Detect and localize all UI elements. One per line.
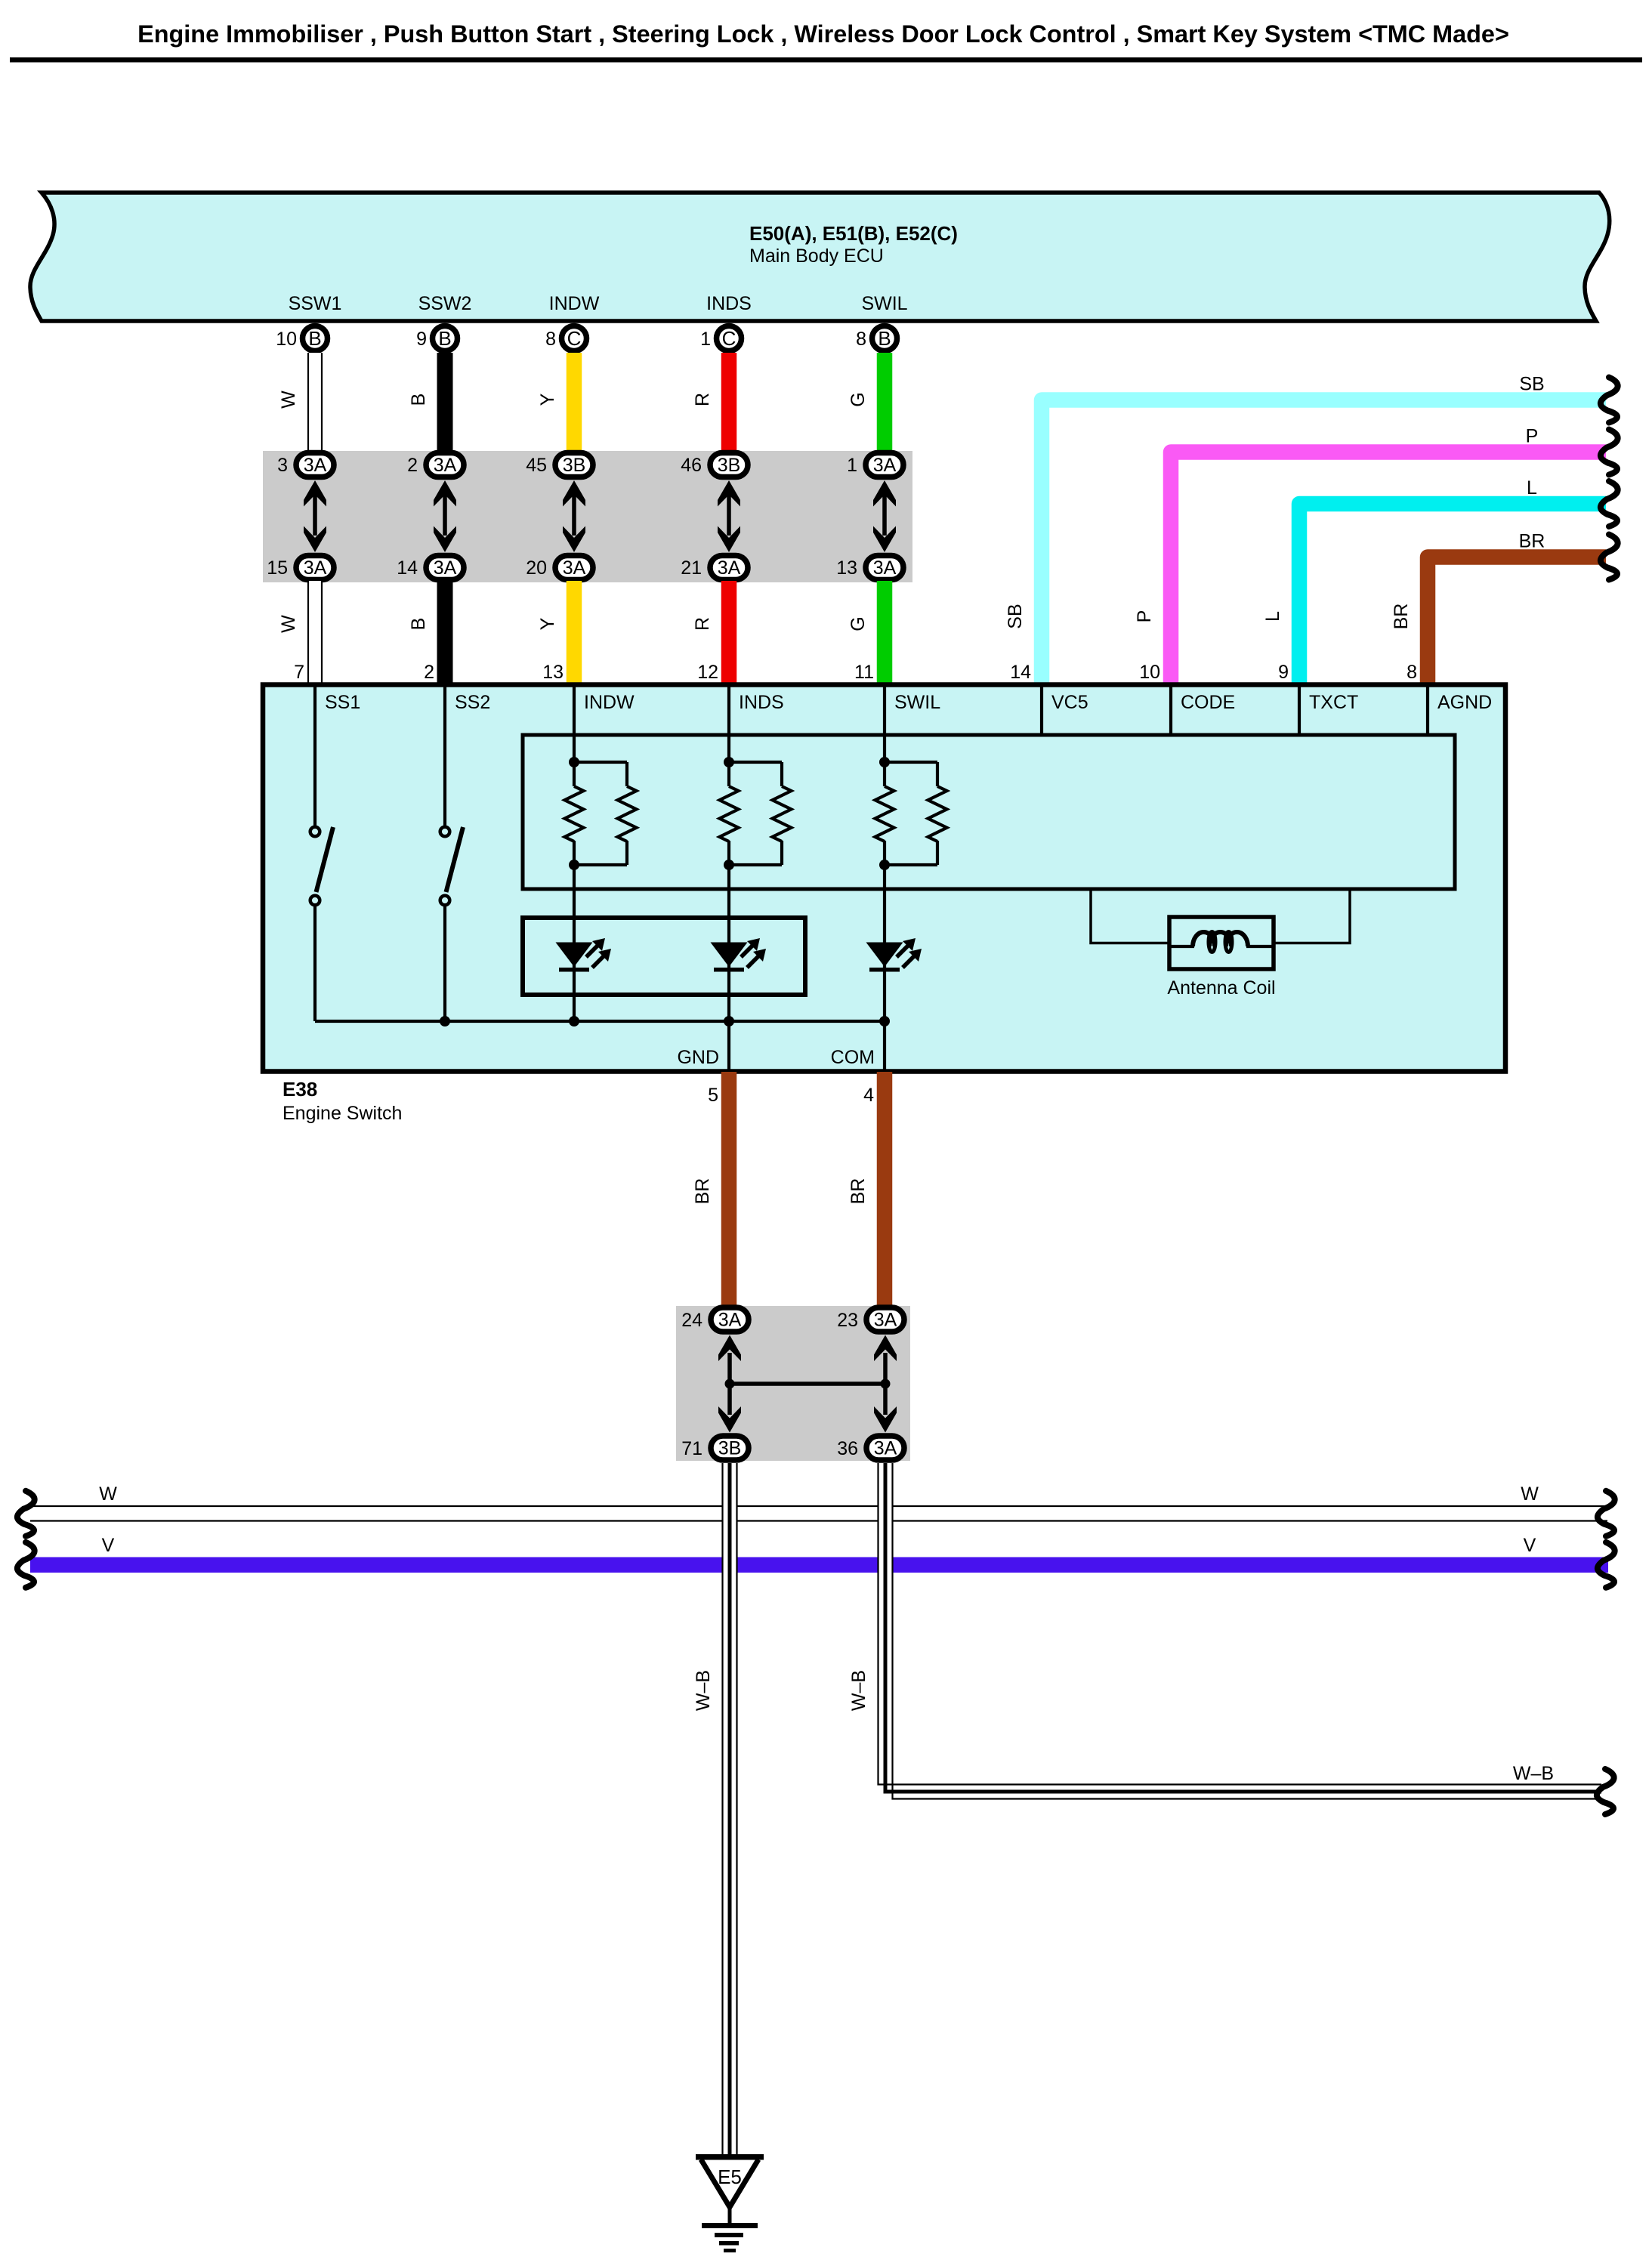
resistor pair SWIL <box>875 757 947 870</box>
svg-text:SSW2: SSW2 <box>418 293 472 314</box>
svg-text:BR: BR <box>1391 604 1412 630</box>
terminal divider at 1379 <box>1040 687 1043 735</box>
lower arrow pair right <box>874 1335 897 1433</box>
svg-text:R: R <box>692 393 713 406</box>
LED SWIL <box>866 938 922 972</box>
svg-text:21: 21 <box>681 557 702 579</box>
resistor pair INDS <box>720 757 792 870</box>
svg-text:24: 24 <box>681 1310 702 1331</box>
wire W horizontal <box>30 1506 1607 1521</box>
svg-text:14: 14 <box>397 557 418 579</box>
svg-text:Y: Y <box>537 393 558 406</box>
svg-text:15: 15 <box>267 557 288 579</box>
LED INDW <box>556 938 612 972</box>
antenna coil box <box>1169 917 1274 969</box>
svg-text:Engine Immobiliser , Push Butt: Engine Immobiliser , Push Button Start ,… <box>137 20 1509 48</box>
break V left <box>17 1542 35 1588</box>
ground E5 bar 3 <box>715 2233 743 2237</box>
svg-text:3A: 3A <box>563 557 586 579</box>
wire Y INDW lower <box>567 581 582 684</box>
svg-text:3A: 3A <box>873 455 897 476</box>
title rule <box>10 57 1642 63</box>
ground E5 top bar <box>696 2154 764 2160</box>
svg-text:2: 2 <box>407 455 418 476</box>
svg-text:3A: 3A <box>874 1310 897 1331</box>
svg-text:G: G <box>848 392 869 406</box>
svg-text:Engine Switch: Engine Switch <box>283 1103 402 1124</box>
svg-text:W: W <box>99 1483 117 1505</box>
break symbol BR <box>1601 535 1618 580</box>
junction oval pin 21 3A <box>710 556 748 580</box>
junction arrow pair col INDW <box>563 480 585 552</box>
junction arrow pair col SWIL <box>873 480 896 552</box>
break symbol L <box>1601 481 1618 526</box>
junction oval pin 36 3A <box>866 1436 904 1460</box>
wire P pin 10 <box>1171 452 1606 685</box>
connector pin 1 (C) INDS <box>717 326 742 351</box>
connector pin 9 (B) SSW2 <box>433 326 458 351</box>
svg-text:13: 13 <box>542 662 564 683</box>
lower junction connector box <box>676 1306 910 1461</box>
svg-text:Y: Y <box>537 617 558 630</box>
INDS column wire <box>727 687 730 764</box>
SWIL column wire <box>883 687 886 764</box>
svg-text:SB: SB <box>1005 604 1026 628</box>
svg-text:CODE: CODE <box>1181 692 1235 713</box>
svg-text:TXCT: TXCT <box>1309 692 1358 713</box>
svg-text:13: 13 <box>836 557 857 579</box>
wire R INDS upper <box>721 353 737 452</box>
bus junction dot 1171 <box>879 1016 890 1026</box>
svg-text:3A: 3A <box>873 557 897 579</box>
svg-text:1: 1 <box>847 455 857 476</box>
wire W SS1 lower <box>307 581 323 684</box>
junction oval pin 3 3A <box>296 453 334 477</box>
engine switch box E38 <box>263 685 1505 1072</box>
junction arrow pair col SSW1 <box>304 480 326 552</box>
junction oval pin 2 3A <box>426 453 464 477</box>
svg-text:11: 11 <box>854 662 874 683</box>
wire Y INDW upper <box>567 353 582 452</box>
internal ground bus <box>315 1020 885 1023</box>
svg-text:B: B <box>878 327 891 350</box>
antenna wiring left <box>1091 889 1169 943</box>
wire L pin 9 <box>1299 504 1606 684</box>
wire V horizontal <box>30 1557 1608 1573</box>
svg-text:SS1: SS1 <box>325 692 360 713</box>
junction arrow pair col SSW2 <box>434 480 456 552</box>
junction oval pin 71 3B <box>711 1436 749 1460</box>
svg-text:20: 20 <box>526 557 547 579</box>
svg-text:71: 71 <box>681 1438 702 1459</box>
svg-text:E38: E38 <box>283 1078 317 1101</box>
svg-text:3A: 3A <box>434 455 457 476</box>
svg-text:COM: COM <box>831 1047 875 1068</box>
break W-B right <box>1597 1769 1614 1814</box>
svg-text:3A: 3A <box>718 557 741 579</box>
junction oval pin 15 3A <box>296 556 334 580</box>
svg-text:8: 8 <box>856 329 866 350</box>
connector pin 8 (B) SWIL <box>872 326 897 351</box>
terminal divider at 1720 <box>1298 687 1301 735</box>
svg-text:14: 14 <box>1010 662 1031 683</box>
svg-text:3B: 3B <box>718 455 741 476</box>
ground E5 bar 5 <box>724 2249 736 2252</box>
connector pin 10 (B) SSW1 <box>303 326 328 351</box>
antenna wiring right <box>1274 889 1350 943</box>
svg-text:9: 9 <box>1278 662 1289 683</box>
svg-text:7: 7 <box>294 662 304 683</box>
junction oval pin 13 3A <box>866 556 903 580</box>
link dot right <box>881 1379 891 1389</box>
svg-text:E50(A), E51(B), E52(C): E50(A), E51(B), E52(C) <box>749 222 958 245</box>
bus junction dot 589 <box>440 1016 450 1026</box>
svg-text:W–B: W–B <box>1513 1763 1554 1784</box>
svg-text:8: 8 <box>1407 662 1417 683</box>
svg-text:Main Body ECU: Main Body ECU <box>749 245 884 267</box>
wire W-B left vertical <box>722 1463 738 2155</box>
bus junction dot 760 <box>569 1016 579 1026</box>
svg-text:SS2: SS2 <box>455 692 490 713</box>
svg-text:W: W <box>1521 1483 1539 1505</box>
Main Body ECU box E50/E51/E52 <box>30 193 1610 321</box>
svg-text:SWIL: SWIL <box>894 692 940 713</box>
lower junction link <box>730 1382 885 1386</box>
terminal divider at 1890 <box>1426 687 1429 735</box>
svg-text:INDW: INDW <box>549 293 600 314</box>
wire G SWIL lower <box>877 581 893 684</box>
junction oval pin 14 3A <box>426 556 464 580</box>
resistor pair INDW <box>565 757 637 870</box>
wire BR COM pin 4 <box>877 1072 893 1306</box>
wire W-B right with corner <box>878 1463 1602 1799</box>
junction oval pin 1 3A <box>866 453 903 477</box>
svg-text:R: R <box>692 617 713 631</box>
break symbol P <box>1601 430 1618 475</box>
SS1 switch <box>310 687 333 1021</box>
svg-text:W–B: W–B <box>693 1670 714 1711</box>
svg-text:SWIL: SWIL <box>861 293 907 314</box>
LED INDS <box>711 938 767 972</box>
connector pin 8 (C) INDW <box>562 326 587 351</box>
wire BR pin 8 <box>1428 557 1606 685</box>
ground E5 triangle <box>701 2159 758 2207</box>
svg-text:1: 1 <box>700 329 711 350</box>
break symbol SB <box>1601 378 1618 423</box>
svg-text:3A: 3A <box>434 557 457 579</box>
svg-text:P: P <box>1526 426 1539 447</box>
wire SB pin 14 <box>1042 400 1606 685</box>
svg-text:C: C <box>722 327 736 350</box>
svg-text:3A: 3A <box>718 1310 742 1331</box>
svg-text:45: 45 <box>526 455 547 476</box>
svg-text:B: B <box>408 618 429 631</box>
junction oval pin 45 3B <box>555 453 593 477</box>
svg-text:23: 23 <box>837 1310 858 1331</box>
svg-text:AGND: AGND <box>1437 692 1492 713</box>
wire B SS2 lower <box>437 581 453 684</box>
wire R INDS lower <box>721 581 737 684</box>
INDW column wire <box>573 687 576 764</box>
svg-text:SSW1: SSW1 <box>289 293 342 314</box>
svg-text:3: 3 <box>277 455 288 476</box>
svg-text:B: B <box>408 394 429 406</box>
junction oval pin 24 3A <box>711 1307 749 1332</box>
break W left <box>17 1491 35 1536</box>
svg-text:3A: 3A <box>874 1438 897 1459</box>
svg-text:10: 10 <box>1139 662 1160 683</box>
wire B SSW2 upper <box>437 353 453 452</box>
svg-text:W–B: W–B <box>848 1670 869 1711</box>
svg-text:Antenna Coil: Antenna Coil <box>1167 977 1275 999</box>
svg-text:2: 2 <box>424 662 434 683</box>
junction oval pin 23 3A <box>866 1307 904 1332</box>
wire BR GND pin 5 <box>721 1072 737 1306</box>
svg-text:9: 9 <box>416 329 427 350</box>
junction oval pin 20 3A <box>555 556 593 580</box>
svg-text:BR: BR <box>692 1178 713 1205</box>
svg-text:5: 5 <box>708 1085 718 1106</box>
svg-text:W: W <box>278 615 299 633</box>
svg-text:VC5: VC5 <box>1051 692 1088 713</box>
ground E5 bar 4 <box>719 2241 739 2246</box>
svg-text:3B: 3B <box>718 1438 742 1459</box>
ground E5 stem <box>728 2207 732 2225</box>
svg-text:B: B <box>308 327 321 350</box>
svg-text:G: G <box>848 616 869 631</box>
junction connector band 3A/3B <box>263 451 912 582</box>
svg-text:BR: BR <box>1519 531 1545 552</box>
svg-text:INDW: INDW <box>584 692 635 713</box>
svg-text:GND: GND <box>677 1047 719 1068</box>
junction arrow pair col INDS <box>718 480 740 552</box>
svg-text:W: W <box>278 391 299 409</box>
svg-text:V: V <box>102 1535 115 1556</box>
svg-text:P: P <box>1134 610 1155 623</box>
wire G SWIL upper <box>877 353 893 452</box>
svg-text:INDS: INDS <box>739 692 784 713</box>
svg-text:10: 10 <box>276 329 297 350</box>
break W right <box>1598 1491 1615 1536</box>
SS2 switch <box>440 687 463 1021</box>
svg-text:12: 12 <box>697 662 718 683</box>
svg-text:B: B <box>438 327 451 350</box>
bus junction dot 965 <box>724 1016 734 1026</box>
svg-text:3A: 3A <box>304 557 327 579</box>
svg-text:E5: E5 <box>718 2166 742 2188</box>
antenna coil symbol <box>1169 932 1274 952</box>
break V right <box>1598 1542 1615 1588</box>
svg-text:8: 8 <box>545 329 556 350</box>
lower arrow pair left <box>718 1335 741 1433</box>
link dot left <box>725 1379 735 1389</box>
svg-text:C: C <box>567 327 582 350</box>
svg-text:3B: 3B <box>563 455 586 476</box>
svg-text:46: 46 <box>681 455 702 476</box>
svg-text:L: L <box>1527 477 1537 499</box>
svg-text:4: 4 <box>863 1085 874 1106</box>
wire W SSW1 upper <box>307 353 323 452</box>
svg-text:V: V <box>1524 1535 1536 1556</box>
svg-text:L: L <box>1262 611 1283 622</box>
svg-text:BR: BR <box>848 1178 869 1205</box>
svg-text:INDS: INDS <box>706 293 752 314</box>
svg-text:3A: 3A <box>304 455 327 476</box>
svg-text:36: 36 <box>837 1438 858 1459</box>
svg-text:SB: SB <box>1519 374 1544 395</box>
LED box <box>523 918 805 995</box>
junction oval pin 46 3B <box>710 453 748 477</box>
ground E5 bar 2 <box>702 2223 758 2228</box>
inner resistor block <box>523 735 1455 889</box>
terminal divider at 1550 <box>1169 687 1172 735</box>
